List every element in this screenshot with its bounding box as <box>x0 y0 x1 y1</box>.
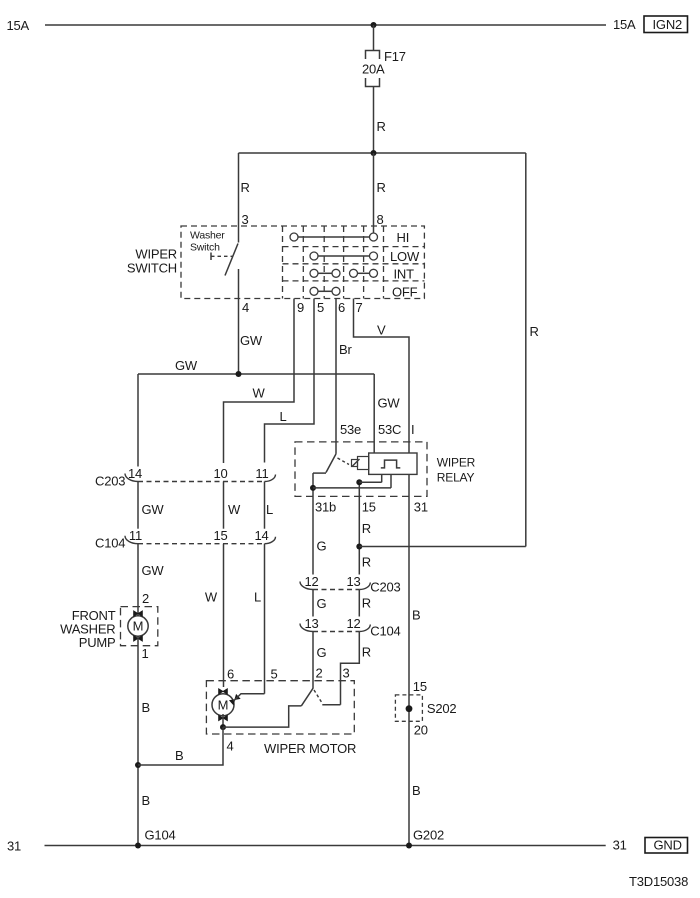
svg-text:IGN2: IGN2 <box>653 17 683 32</box>
svg-text:WIPER: WIPER <box>135 247 177 262</box>
svg-text:6: 6 <box>227 667 234 682</box>
svg-text:31: 31 <box>613 838 627 853</box>
svg-text:R: R <box>362 596 371 611</box>
svg-text:B: B <box>142 700 150 715</box>
svg-text:10: 10 <box>213 466 227 481</box>
svg-text:15: 15 <box>362 500 376 515</box>
svg-text:11: 11 <box>255 466 268 481</box>
svg-text:F17: F17 <box>384 49 406 64</box>
svg-text:M: M <box>218 698 229 713</box>
svg-text:T3D15038: T3D15038 <box>629 874 688 889</box>
svg-text:C104: C104 <box>370 624 400 639</box>
svg-text:Br: Br <box>339 342 352 357</box>
svg-text:5: 5 <box>271 667 278 682</box>
svg-text:15A: 15A <box>613 17 636 32</box>
svg-text:4: 4 <box>242 300 249 315</box>
svg-text:6: 6 <box>338 300 345 315</box>
svg-text:9: 9 <box>297 300 304 315</box>
svg-text:53e: 53e <box>340 422 361 437</box>
svg-text:G: G <box>317 596 327 611</box>
svg-text:L: L <box>280 409 287 424</box>
svg-text:GW: GW <box>175 358 198 373</box>
svg-text:OFF: OFF <box>392 285 418 300</box>
svg-text:31: 31 <box>7 839 21 854</box>
svg-text:Washer: Washer <box>190 230 225 242</box>
svg-text:12: 12 <box>304 574 318 589</box>
svg-text:R: R <box>377 180 386 195</box>
svg-text:INT: INT <box>394 267 415 282</box>
svg-text:R: R <box>530 324 539 339</box>
svg-text:31: 31 <box>414 500 428 515</box>
svg-text:RELAY: RELAY <box>437 470 475 484</box>
svg-text:W: W <box>205 590 218 605</box>
svg-text:20A: 20A <box>362 62 385 77</box>
svg-text:7: 7 <box>356 300 363 315</box>
svg-text:C104: C104 <box>95 536 125 551</box>
svg-text:G: G <box>317 645 327 660</box>
svg-text:15: 15 <box>213 528 227 543</box>
svg-text:W: W <box>253 386 266 401</box>
svg-text:2: 2 <box>142 591 149 606</box>
svg-text:B: B <box>142 793 150 808</box>
svg-text:15A: 15A <box>7 18 30 33</box>
svg-text:31b: 31b <box>315 500 336 515</box>
svg-text:V: V <box>377 323 386 338</box>
svg-text:B: B <box>412 783 420 798</box>
svg-text:R: R <box>362 555 371 570</box>
svg-text:3: 3 <box>242 212 249 227</box>
svg-text:C203: C203 <box>370 580 400 595</box>
svg-text:20: 20 <box>414 723 428 738</box>
svg-text:S202: S202 <box>427 701 457 716</box>
svg-text:R: R <box>241 180 250 195</box>
svg-text:GW: GW <box>240 333 263 348</box>
svg-text:12: 12 <box>346 616 360 631</box>
svg-text:L: L <box>266 502 273 517</box>
svg-text:B: B <box>175 748 183 763</box>
svg-text:L: L <box>254 590 261 605</box>
svg-text:R: R <box>377 119 386 134</box>
svg-text:R: R <box>362 645 371 660</box>
svg-text:GW: GW <box>378 396 401 411</box>
svg-text:G: G <box>317 539 327 554</box>
svg-text:GW: GW <box>142 502 165 517</box>
svg-text:B: B <box>412 608 420 623</box>
svg-text:WIPER: WIPER <box>437 455 476 469</box>
svg-text:13: 13 <box>304 616 318 631</box>
svg-text:5: 5 <box>317 300 324 315</box>
svg-text:HI: HI <box>397 230 410 245</box>
svg-text:13: 13 <box>346 574 360 589</box>
svg-text:I: I <box>411 422 414 437</box>
svg-text:SWITCH: SWITCH <box>127 261 177 276</box>
svg-text:2: 2 <box>316 666 323 681</box>
svg-text:R: R <box>362 521 371 536</box>
svg-text:14: 14 <box>128 466 142 481</box>
svg-text:C203: C203 <box>95 474 125 489</box>
svg-text:53C: 53C <box>378 422 401 437</box>
svg-text:4: 4 <box>227 739 234 754</box>
svg-text:M: M <box>133 619 144 634</box>
svg-text:1: 1 <box>142 646 149 661</box>
svg-text:GND: GND <box>654 838 682 853</box>
svg-text:11: 11 <box>129 528 142 543</box>
svg-text:W: W <box>228 502 241 517</box>
svg-text:LOW: LOW <box>390 249 420 264</box>
svg-text:8: 8 <box>377 212 384 227</box>
svg-text:15: 15 <box>413 679 427 694</box>
svg-text:WIPER MOTOR: WIPER MOTOR <box>264 741 356 756</box>
svg-text:3: 3 <box>343 666 350 681</box>
svg-text:14: 14 <box>254 528 268 543</box>
svg-text:G104: G104 <box>145 828 176 843</box>
svg-text:GW: GW <box>142 563 165 578</box>
svg-text:PUMP: PUMP <box>79 635 116 650</box>
svg-text:Switch: Switch <box>190 242 220 254</box>
svg-text:G202: G202 <box>413 828 444 843</box>
